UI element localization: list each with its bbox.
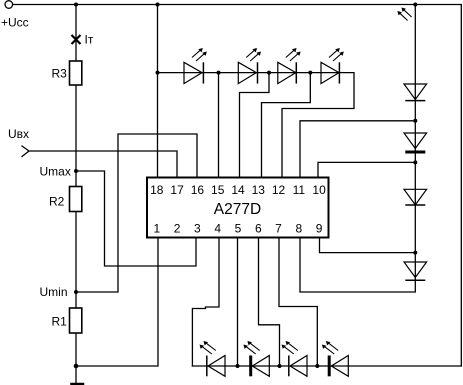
svg-text:4: 4 [214, 222, 221, 236]
svg-text:13: 13 [252, 183, 266, 197]
svg-text:17: 17 [170, 183, 184, 197]
svg-text:1: 1 [153, 222, 160, 236]
svg-text:7: 7 [275, 222, 282, 236]
svg-text:3: 3 [194, 222, 201, 236]
svg-text:11: 11 [293, 183, 306, 197]
svg-text:Umin: Umin [40, 285, 68, 299]
svg-text:5: 5 [235, 222, 242, 236]
svg-text:9: 9 [316, 222, 323, 236]
svg-text:18: 18 [150, 183, 164, 197]
svg-text:14: 14 [231, 183, 245, 197]
svg-text:Iт: Iт [85, 33, 94, 47]
svg-text:R1: R1 [52, 315, 68, 329]
svg-text:16: 16 [191, 183, 205, 197]
svg-text:+Ucc: +Ucc [1, 16, 29, 30]
svg-text:15: 15 [211, 183, 225, 197]
svg-text:Umax: Umax [40, 165, 71, 179]
svg-text:6: 6 [255, 222, 262, 236]
svg-text:2: 2 [174, 222, 181, 236]
svg-text:Uвх: Uвх [8, 127, 29, 141]
svg-text:12: 12 [272, 183, 286, 197]
svg-text:8: 8 [295, 222, 302, 236]
svg-text:10: 10 [312, 183, 326, 197]
svg-text:R2: R2 [49, 195, 65, 209]
svg-text:R3: R3 [52, 67, 68, 81]
svg-text:A277D: A277D [214, 201, 261, 218]
